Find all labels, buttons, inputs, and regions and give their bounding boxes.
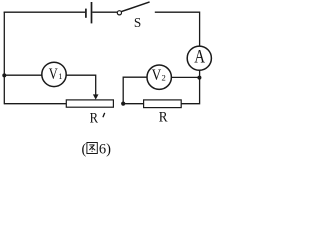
voltmeter V2 [147,65,171,89]
wire: switch to top right corner [155,12,200,46]
node: junction of R, rheostat and V2 branch [121,102,125,106]
caption (图6) [81,142,111,158]
svg-text:1: 1 [58,72,62,81]
wire: V1 to rheostat wiper [66,75,96,95]
svg-text:R: R [159,110,168,126]
wire: battery to switch [92,11,117,13]
svg-text:2: 2 [162,72,166,82]
svg-text:V: V [152,67,162,84]
voltmeter V1 [42,62,66,86]
resistor R [144,100,182,108]
svg-text:R: R [90,110,99,126]
ammeter A [187,46,211,70]
wire: left vertical side [3,12,5,105]
caption glyph: 图 drawn manually [87,143,97,154]
node: junction of left wire and V1 [2,73,6,77]
wire: V2 to right junction [171,76,199,78]
wire: ammeter to right junction [199,70,201,78]
wire: rheostat to left side [4,103,66,105]
wire: top left to battery [4,11,85,13]
node: junction of ammeter and V2 [197,76,201,80]
rheostat R' [66,100,113,107]
wire: R to center junction [123,103,144,105]
wire: right vertical to bottom corner and resistor R [181,78,199,104]
svg-text:6): 6) [99,142,111,158]
svg-text:A: A [194,46,205,67]
switch S [117,2,149,15]
svg-text:(: ( [81,142,86,158]
svg-text:V: V [49,66,59,83]
wire: center junction up and right to V2 [123,77,147,104]
battery [86,2,92,23]
wire: left junction to V1 [4,74,42,76]
svg-text:S: S [134,15,141,30]
rheostat wiper arrow [93,94,99,99]
